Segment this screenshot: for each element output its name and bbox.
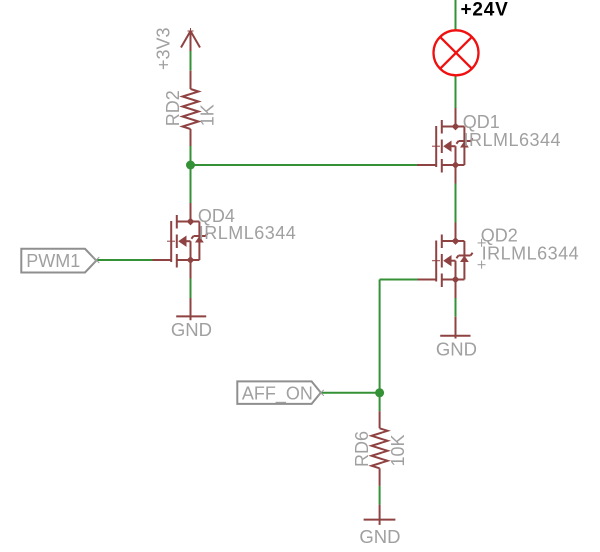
svg-text:GND: GND: [436, 338, 477, 359]
svg-text:IRLML6344: IRLML6344: [482, 244, 580, 264]
svg-text:QD2: QD2: [481, 226, 518, 246]
svg-text:GND: GND: [171, 319, 212, 340]
svg-text:GND: GND: [359, 526, 400, 547]
svg-text:PWM1: PWM1: [26, 251, 80, 271]
svg-text:RD6: RD6: [352, 431, 372, 467]
svg-text:IRLML6344: IRLML6344: [199, 223, 297, 243]
svg-text:IRLML6344: IRLML6344: [464, 130, 562, 150]
svg-text:10K: 10K: [388, 434, 408, 466]
svg-text:+3V3: +3V3: [154, 27, 174, 70]
svg-text:1K: 1K: [197, 104, 217, 126]
svg-text:RD2: RD2: [163, 90, 183, 126]
svg-text:+24V: +24V: [461, 0, 509, 20]
svg-text:AFF_ON: AFF_ON: [242, 384, 313, 405]
